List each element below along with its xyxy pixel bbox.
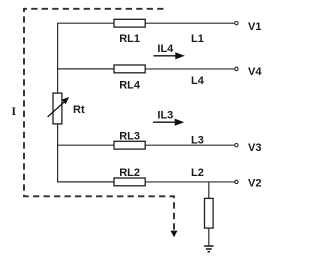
svg-text:L4: L4 <box>191 75 205 87</box>
resistor RL1 <box>114 19 145 27</box>
ground <box>204 246 213 252</box>
resistor RL2 <box>114 178 145 186</box>
svg-text:V4: V4 <box>248 66 262 78</box>
svg-text:RL3: RL3 <box>119 130 140 142</box>
wire row2 left <box>57 68 114 70</box>
svg-text:V3: V3 <box>248 142 261 154</box>
node V3 terminal <box>235 144 238 147</box>
svg-text:L1: L1 <box>191 33 204 45</box>
current loop I (dashed) <box>24 9 178 238</box>
current arrow IL3 <box>153 109 184 126</box>
svg-text:L2: L2 <box>191 167 204 179</box>
svg-text:V2: V2 <box>248 177 261 189</box>
svg-text:V1: V1 <box>248 21 261 33</box>
wire to load resistor <box>208 182 210 199</box>
wire L3 <box>145 144 234 146</box>
wire row3 left <box>57 144 114 146</box>
wire row4 left <box>57 181 114 183</box>
wire L1 <box>145 22 234 24</box>
svg-text:RL4: RL4 <box>119 80 141 92</box>
load resistor <box>205 198 214 228</box>
thermistor Rt <box>48 93 70 124</box>
resistor RL3 <box>114 141 145 149</box>
wire to ground <box>208 228 210 245</box>
node V2 terminal <box>235 180 238 183</box>
node V4 terminal <box>235 67 238 70</box>
wire row1 left <box>57 22 114 24</box>
svg-text:IL3: IL3 <box>157 109 173 121</box>
current arrow IL4 <box>153 43 184 59</box>
svg-text:RL1: RL1 <box>119 33 140 45</box>
svg-text:IL4: IL4 <box>157 43 174 55</box>
svg-text:I: I <box>11 106 16 118</box>
wire L2 <box>145 181 234 183</box>
node V1 terminal <box>235 22 238 25</box>
svg-text:L3: L3 <box>191 135 204 147</box>
bus wire (left vertical) <box>57 23 59 182</box>
svg-text:RL2: RL2 <box>119 167 140 179</box>
wire L4 <box>145 68 234 70</box>
resistor RL4 <box>114 65 145 73</box>
svg-text:Rt: Rt <box>73 104 85 116</box>
